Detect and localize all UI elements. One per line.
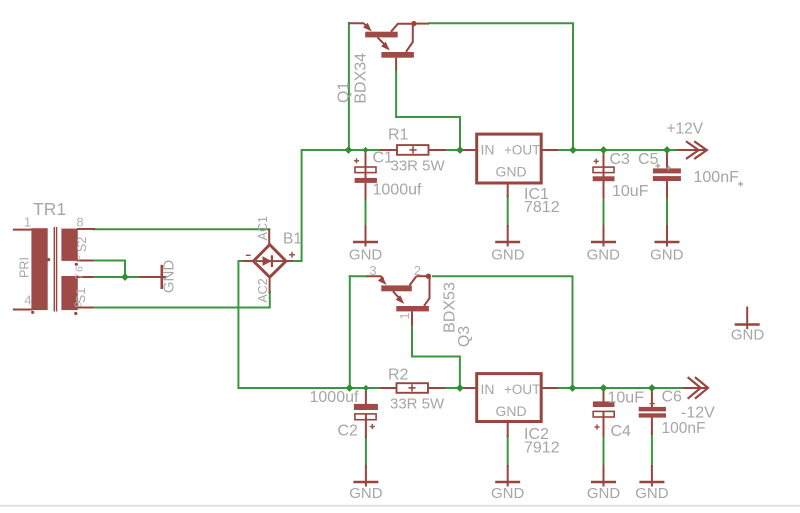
svg-text:9: 9 [73,301,85,307]
svg-text:~: ~ [74,255,86,261]
svg-text:GND: GND [349,485,383,502]
svg-text:+OUT: +OUT [504,142,540,157]
svg-text:33R 5W: 33R 5W [391,158,446,175]
svg-text:GND: GND [635,485,669,502]
svg-text:BDX53: BDX53 [442,282,459,333]
svg-text:GND: GND [587,485,621,502]
svg-text:1000uf: 1000uf [310,389,359,406]
svg-text:-12V: -12V [681,405,715,422]
svg-text:+12V: +12V [667,121,704,138]
svg-text:TR1: TR1 [33,199,66,219]
svg-text:C6: C6 [662,389,683,406]
svg-text:33R 5W: 33R 5W [390,396,445,413]
svg-text:C3: C3 [610,151,631,168]
svg-text:7812: 7812 [524,199,560,216]
svg-text:GND: GND [587,247,621,264]
svg-text:GND: GND [731,327,765,344]
svg-text:BDX34: BDX34 [353,53,370,104]
svg-text:GND: GND [161,260,178,294]
svg-text:C1: C1 [373,150,394,167]
svg-text:R1: R1 [388,127,409,144]
svg-text:PRI: PRI [18,257,32,278]
svg-text:1: 1 [397,312,412,319]
svg-text:IN: IN [481,141,495,157]
svg-text:Q1: Q1 [335,82,352,103]
svg-text:IN: IN [481,381,495,397]
svg-text:C4: C4 [611,423,632,440]
svg-text:GND: GND [491,247,525,264]
svg-text:4: 4 [24,293,31,308]
svg-text:1000uf: 1000uf [373,182,422,199]
svg-text:B1: B1 [283,231,302,248]
svg-text:GND: GND [349,247,383,264]
svg-text:C2: C2 [338,423,359,440]
svg-text:S2: S2 [75,237,89,252]
svg-text:10uF: 10uF [612,183,649,200]
svg-text:GND: GND [491,485,525,502]
svg-text:R2: R2 [388,367,409,384]
svg-text:1: 1 [24,215,31,230]
svg-text:10uF: 10uF [608,390,645,407]
svg-text:Q3: Q3 [456,326,473,347]
svg-text:7912: 7912 [524,440,560,457]
svg-text:GND: GND [496,403,527,419]
svg-text:S1: S1 [74,288,88,303]
svg-text:3: 3 [369,263,376,278]
svg-text:AC1: AC1 [256,216,270,240]
svg-text:2: 2 [414,263,421,278]
svg-text:8: 8 [76,215,83,230]
svg-text:+OUT: +OUT [504,382,540,397]
svg-text:AC2: AC2 [256,278,270,302]
svg-text:7: 7 [74,273,86,279]
svg-text:GND: GND [496,163,527,179]
svg-text:100nF: 100nF [694,169,740,186]
svg-text:6: 6 [74,266,86,272]
svg-text:GND: GND [650,247,684,264]
svg-text:100nF: 100nF [662,420,706,437]
svg-text:C5: C5 [638,151,659,168]
